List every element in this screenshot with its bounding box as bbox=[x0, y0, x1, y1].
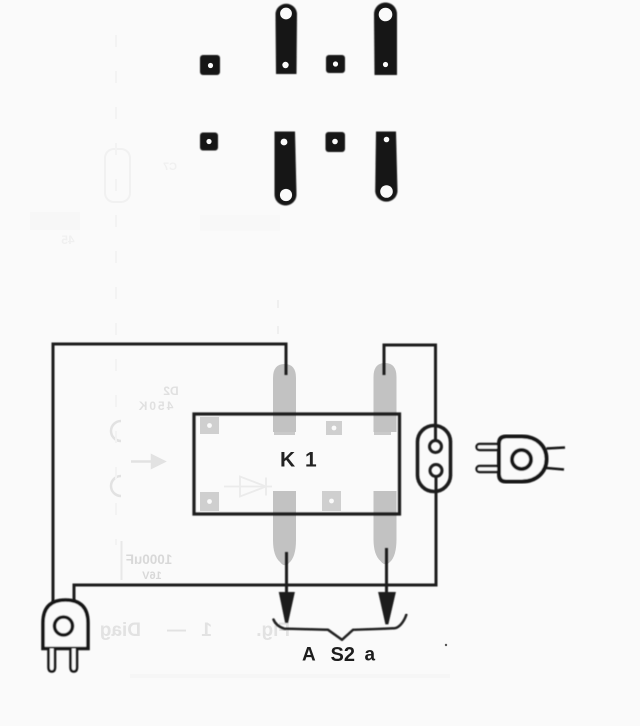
svg-text:16V: 16V bbox=[142, 570, 162, 582]
svg-text:1: 1 bbox=[201, 620, 212, 641]
svg-text:1000uF: 1000uF bbox=[126, 552, 173, 567]
svg-text:—: — bbox=[167, 620, 186, 641]
svg-text:D2: D2 bbox=[163, 384, 179, 398]
svg-text:450K: 450K bbox=[137, 399, 174, 413]
svg-text:K 1: K 1 bbox=[280, 449, 319, 472]
svg-text:45: 45 bbox=[61, 233, 75, 247]
svg-text:A: A bbox=[302, 645, 316, 666]
svg-text:a: a bbox=[365, 645, 376, 666]
svg-text:S2: S2 bbox=[331, 644, 355, 666]
svg-text:Fig.: Fig. bbox=[256, 620, 290, 641]
svg-text:Diag: Diag bbox=[100, 620, 141, 641]
svg-text:C7: C7 bbox=[163, 161, 177, 173]
